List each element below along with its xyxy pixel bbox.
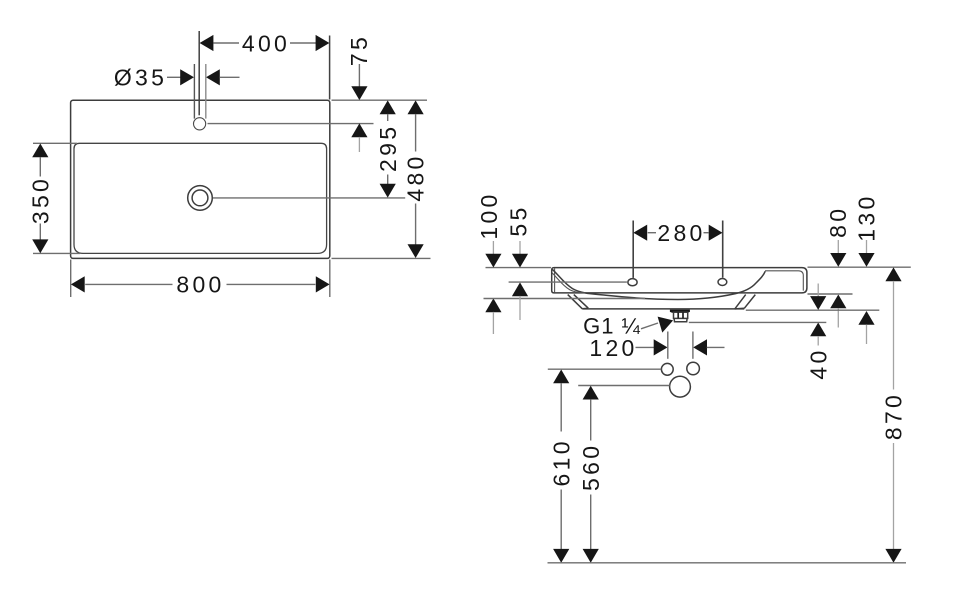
dimension 800 : right arrow bbox=[316, 276, 330, 292]
dimension 480 : lower line bbox=[415, 204, 417, 245]
left leg inner edge bbox=[574, 295, 589, 309]
drain flange top bar bbox=[670, 310, 690, 313]
dimension Ø35 : right leader bbox=[220, 76, 240, 78]
drain inner circle bbox=[192, 190, 208, 206]
dimension 800 : dim line right segment bbox=[227, 283, 316, 285]
dimension 560 : upper line bbox=[590, 399, 592, 440]
dimension 280 : dim line left segment bbox=[648, 232, 656, 234]
dimension 295 : down arrow bbox=[380, 184, 396, 198]
dimension 480 : up arrow bbox=[408, 100, 424, 114]
dimension 610 : reference line bbox=[548, 368, 662, 370]
faucet hole (top view) bbox=[194, 118, 206, 130]
dimension Ø35 : left boundary line bbox=[193, 64, 195, 119]
bowl wall secondary curve bbox=[552, 273, 585, 293]
dimension 400 : right arrow bbox=[316, 35, 330, 51]
left leg foot bbox=[582, 307, 588, 310]
dimension 350 : lower line bbox=[39, 224, 41, 241]
svg-text:610: 610 bbox=[548, 438, 574, 486]
trap hole (large circle) bbox=[670, 376, 691, 397]
dimension 55 : down arrow bbox=[512, 254, 528, 268]
svg-text:400: 400 bbox=[242, 30, 290, 56]
dimension 80 : lower tail bbox=[837, 308, 839, 328]
dimension 560 : reference line bbox=[578, 385, 670, 387]
dimension 40 : upper tail bbox=[817, 284, 819, 297]
svg-text:130: 130 bbox=[853, 193, 879, 241]
basin face outline bbox=[552, 268, 807, 293]
basin outer rect (top view) bbox=[71, 100, 330, 258]
dimension 100 : up arrow bbox=[485, 298, 501, 312]
dimension 400 : hole centre extension line bbox=[198, 31, 200, 115]
dimension 295 : up arrow bbox=[380, 100, 396, 114]
mounting hole left bbox=[661, 363, 673, 375]
dimension 350 : down arrow bbox=[32, 239, 48, 253]
dimension 55 : reference line bbox=[509, 281, 627, 283]
overflow hole right bbox=[718, 279, 727, 286]
dimension 280 : left arrow bbox=[633, 225, 647, 241]
basin bottom edge extension (left view, to right) bbox=[332, 257, 431, 259]
basin top extension line left bbox=[486, 267, 552, 269]
dimension 120 : right leader bbox=[707, 346, 725, 348]
dimension 100 : lower tail bbox=[492, 312, 494, 334]
dimension Ø35 : left leader bbox=[167, 76, 182, 78]
svg-text:Ø35: Ø35 bbox=[114, 65, 167, 91]
label G 1 1/4 : arrow bbox=[658, 317, 674, 333]
drain flange divider 2 bbox=[682, 312, 684, 318]
svg-text:480: 480 bbox=[403, 153, 429, 201]
basin top edge extension (left view, to right) bbox=[332, 99, 428, 101]
dimension 55 : upper line bbox=[519, 241, 521, 255]
floor line bbox=[548, 562, 907, 564]
dimension 55 : up arrow bbox=[512, 282, 528, 296]
dimension 870 : upper line bbox=[893, 281, 895, 390]
dimension 560 : lower line bbox=[590, 495, 592, 550]
dimension 280 : right arrow bbox=[709, 225, 723, 241]
faucet hole leader line bbox=[208, 123, 374, 125]
dimension 610 : up arrow bbox=[553, 370, 569, 384]
dimension 400 : right extension line bbox=[329, 36, 331, 100]
dimension 130 : up arrow bbox=[858, 311, 874, 325]
dimension 280 : left extension line bbox=[632, 221, 634, 278]
dimension 120 : left extension line bbox=[667, 332, 669, 359]
dimension 560 : up arrow bbox=[583, 386, 599, 400]
dimension 350 : top reference line bbox=[33, 142, 77, 144]
svg-text:350: 350 bbox=[27, 176, 53, 224]
dimension 480 : down arrow bbox=[408, 244, 424, 258]
svg-text:870: 870 bbox=[881, 392, 907, 440]
dimension 400 : dim line right segment bbox=[290, 42, 316, 44]
dimension 80 : up arrow bbox=[830, 295, 846, 309]
dimension 130 : lower tail bbox=[866, 325, 868, 345]
dimension 120 : right extension line bbox=[692, 332, 694, 359]
label G 1 1/4 : leader line bbox=[641, 323, 658, 329]
dimension 75 : upper line bbox=[358, 64, 360, 87]
basin top extension line right bbox=[808, 266, 911, 268]
dimension 800 : left extension line bbox=[70, 260, 72, 298]
bowl silhouette curve bbox=[552, 269, 765, 299]
dimension 100 : upper line bbox=[492, 241, 494, 255]
dimension 350 : bottom reference line bbox=[33, 252, 80, 254]
right leg inner edge bbox=[735, 295, 746, 309]
dimension 400 : left arrow bbox=[200, 35, 214, 51]
svg-text:80: 80 bbox=[825, 206, 851, 238]
dimension 55 : lower tail bbox=[519, 296, 521, 320]
dimension 75 : down arrow bbox=[351, 86, 367, 100]
dimension 80 : down arrow bbox=[830, 253, 846, 267]
dimension 870 : down arrow bbox=[885, 549, 901, 563]
mounting hole right bbox=[687, 362, 700, 375]
dimension 280 : right extension line bbox=[722, 221, 724, 278]
basin right end inner line bbox=[765, 271, 803, 291]
dimension 120 : left leader bbox=[636, 346, 655, 348]
dimension 40 : down arrow bbox=[810, 296, 826, 310]
dimension 400 : dim line left segment bbox=[214, 42, 240, 44]
svg-text:75: 75 bbox=[346, 34, 372, 66]
dimension Ø35 : right arrow bbox=[206, 69, 220, 85]
drain tailpipe bbox=[674, 318, 687, 321]
dimension 480 : upper line bbox=[415, 114, 417, 152]
apron bottom extension line right bbox=[746, 309, 880, 311]
dimension 130 : down arrow bbox=[858, 253, 874, 267]
dimension 870 : up arrow bbox=[885, 267, 901, 281]
drain leader line bbox=[213, 197, 405, 199]
dimension Ø35 : left arrow bbox=[180, 69, 194, 85]
dimension 295 : lower line bbox=[387, 175, 389, 185]
basin left wall inner line bbox=[554, 268, 556, 292]
dimension 280 : dim line right segment bbox=[704, 232, 709, 234]
dimension 870 : lower line bbox=[893, 443, 895, 549]
svg-text:560: 560 bbox=[578, 443, 604, 491]
dimension 100 : reference line bbox=[484, 298, 646, 300]
dimension 560 : down arrow bbox=[583, 549, 599, 563]
dimension 80 : upper line bbox=[837, 240, 839, 254]
dimension 800 : left arrow bbox=[71, 276, 85, 292]
dimension 40 : up arrow bbox=[810, 323, 826, 337]
svg-text:800: 800 bbox=[176, 272, 224, 298]
right leg outer edge bbox=[744, 295, 755, 309]
dimension 800 : right extension line bbox=[329, 260, 331, 298]
left leg outer edge bbox=[568, 295, 583, 309]
dimension 800 : dim line left segment bbox=[85, 283, 172, 285]
svg-text:280: 280 bbox=[657, 220, 705, 246]
dimension Ø35 : right boundary line bbox=[205, 64, 207, 119]
dimension 295 : upper line bbox=[387, 114, 389, 121]
dimension 350 : upper line bbox=[39, 157, 41, 177]
svg-text:120: 120 bbox=[589, 335, 637, 361]
svg-text:55: 55 bbox=[505, 204, 531, 236]
svg-text:40: 40 bbox=[805, 347, 831, 379]
dimension 130 : upper line bbox=[866, 240, 868, 254]
drain outer circle bbox=[188, 186, 213, 211]
right leg foot bbox=[735, 307, 745, 310]
drain flange divider 1 bbox=[677, 312, 679, 318]
basin bottom extension line right bbox=[808, 293, 853, 295]
drain flange body bbox=[674, 312, 688, 318]
dimension 610 : down arrow bbox=[553, 549, 569, 563]
overflow hole left bbox=[628, 279, 637, 286]
dimension 40 : lower line bbox=[817, 336, 819, 346]
dimension 100 : down arrow bbox=[485, 254, 501, 268]
dimension 120 : left-pointing arrow bbox=[693, 339, 707, 355]
dimension 120 : right-pointing arrow bbox=[654, 339, 668, 355]
svg-text:295: 295 bbox=[375, 124, 401, 172]
drain reference line bbox=[689, 321, 827, 323]
dimension 350 : up arrow bbox=[32, 144, 48, 158]
dimension 610 : upper line bbox=[560, 383, 562, 432]
apron bottom edge bbox=[582, 308, 744, 310]
svg-text:100: 100 bbox=[476, 191, 502, 239]
dimension 610 : lower line bbox=[560, 490, 562, 550]
dimension 75 : up arrow bbox=[351, 123, 367, 137]
dimension 75 : lower tail bbox=[358, 137, 360, 152]
basin inner bowl rect (top view) bbox=[74, 143, 327, 253]
